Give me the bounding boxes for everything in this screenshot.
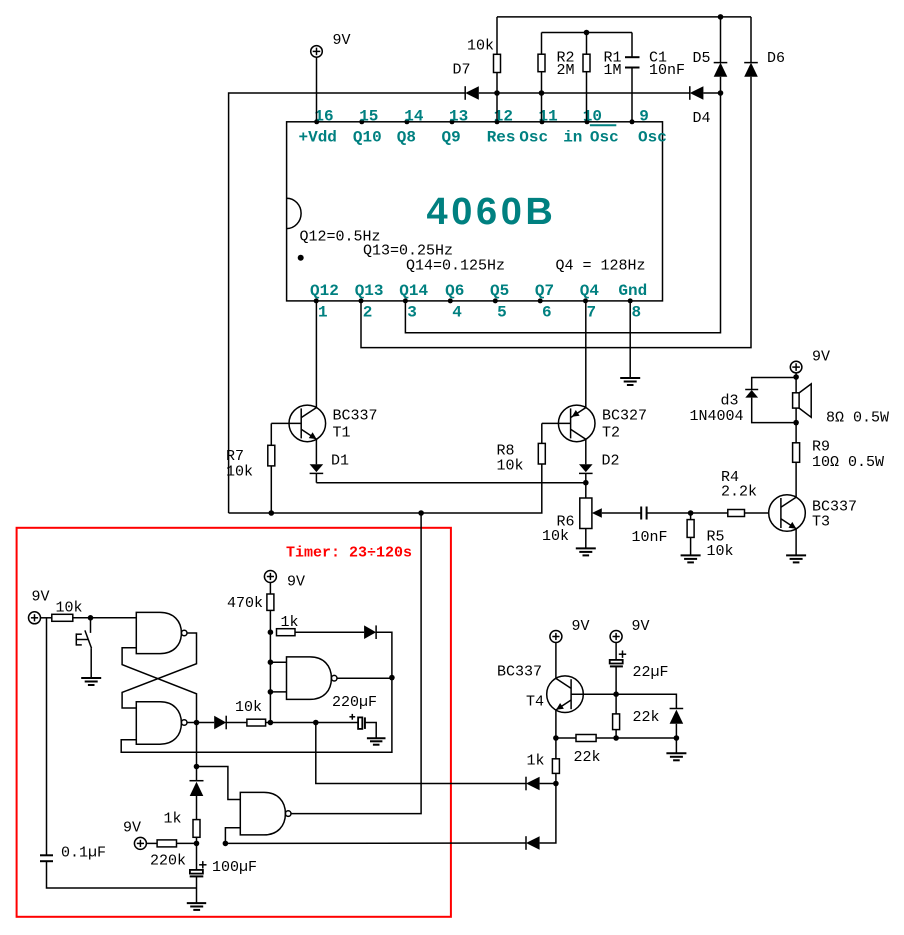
wire T3 emitter to ground xyxy=(795,529,797,556)
ground (220uF) xyxy=(367,738,386,745)
resistor R7 10k xyxy=(226,423,275,513)
svg-text:13: 13 xyxy=(449,108,468,126)
svg-text:9V: 9V xyxy=(123,820,141,837)
diode D7 xyxy=(453,62,498,100)
capacitor 0.1uF xyxy=(40,618,197,888)
svg-text:D1: D1 xyxy=(331,453,349,470)
svg-text:7: 7 xyxy=(587,304,597,322)
node junction speaker bottom / d3 xyxy=(793,420,799,426)
svg-text:1k: 1k xyxy=(281,614,299,631)
svg-text:10k: 10k xyxy=(707,543,734,560)
timer enclosure box xyxy=(17,528,451,917)
svg-text:Timer: 23÷120s: Timer: 23÷120s xyxy=(286,545,412,562)
resistor R1 1M xyxy=(583,33,622,122)
svg-text:1k: 1k xyxy=(164,811,182,828)
ground (R5) xyxy=(681,555,701,562)
wire D1 to D2 node xyxy=(316,482,585,484)
svg-text:1M: 1M xyxy=(604,62,622,79)
node junction R2 / reset wire xyxy=(539,90,545,96)
svg-text:8: 8 xyxy=(632,304,642,322)
wire T4 emitter down xyxy=(555,710,557,738)
svg-text:Q4 = 128Hz: Q4 = 128Hz xyxy=(556,258,646,275)
power 9V supply (220k) xyxy=(123,820,146,850)
node junction 10nF/R5/R4 xyxy=(688,510,694,516)
capacitor 100uF xyxy=(190,843,257,903)
wire 10k to pin 12 xyxy=(496,93,498,122)
node junction N4 input A tap xyxy=(194,764,200,770)
svg-text:T1: T1 xyxy=(333,425,351,442)
svg-text:Q12: Q12 xyxy=(310,282,339,300)
transistor T2 BC327 xyxy=(558,405,647,442)
svg-text:220µF: 220µF xyxy=(332,694,377,711)
diode (base clamp) xyxy=(670,709,684,739)
wire pin 1 to T1 collector xyxy=(315,301,317,408)
wire N4 output to y513 node xyxy=(291,513,421,814)
wire RC node to T4 stage xyxy=(225,842,526,844)
pin 1 xyxy=(310,282,339,322)
pin 8 xyxy=(618,282,647,322)
resistor R9 10ohm xyxy=(793,423,884,498)
nand gate N1 xyxy=(136,612,187,653)
svg-text:d3: d3 xyxy=(721,393,739,410)
nand gate N4 xyxy=(240,792,291,835)
svg-text:6: 6 xyxy=(542,304,552,322)
wire N3 output feedback to N2 input B xyxy=(121,678,392,753)
node junction N3 output / diode xyxy=(389,675,395,681)
svg-text:9V: 9V xyxy=(333,32,351,49)
svg-text:9V: 9V xyxy=(572,618,590,635)
svg-text:Q7: Q7 xyxy=(535,282,554,300)
node junction N4 input B / RC xyxy=(223,841,229,847)
wire N2 output down xyxy=(196,723,198,781)
svg-text:9: 9 xyxy=(639,108,649,126)
svg-text:1: 1 xyxy=(318,304,328,322)
wire T4 base xyxy=(571,693,616,695)
wire N4 input B xyxy=(225,828,240,844)
svg-text:2.2k: 2.2k xyxy=(721,484,757,501)
wire to N4 input A xyxy=(197,767,241,800)
svg-text:10: 10 xyxy=(583,108,602,126)
pin 3 xyxy=(399,282,428,322)
diode (timer sense lower) xyxy=(526,836,540,850)
svg-text:Q8: Q8 xyxy=(397,129,416,147)
svg-text:10nF: 10nF xyxy=(649,62,685,79)
pin 4 xyxy=(445,282,464,322)
resistor R5 10k xyxy=(687,513,733,560)
svg-text:BC327: BC327 xyxy=(602,408,647,425)
node junction R7 bottom xyxy=(269,510,275,516)
ground (100uF) xyxy=(187,903,206,910)
wire pin 7 to T2 xyxy=(585,301,587,408)
node junction N2 output xyxy=(194,720,200,726)
svg-text:10Ω 0.5W: 10Ω 0.5W xyxy=(812,454,884,471)
pin 13 xyxy=(442,108,469,147)
svg-text:1N4004: 1N4004 xyxy=(690,408,744,425)
wire N1 output to cross-coupling xyxy=(122,633,196,708)
svg-text:Osc: Osc xyxy=(638,129,667,147)
wire bottom long rail y=513 xyxy=(229,464,542,513)
svg-text:Osc: Osc xyxy=(519,129,548,147)
wire pin 8 to ground xyxy=(629,301,631,378)
power 9V supply (T4 collector) xyxy=(550,618,590,643)
wire reset line y=93 xyxy=(229,93,466,513)
capacitor 220uF xyxy=(332,694,377,738)
node junction pushbutton xyxy=(88,615,94,621)
pin 11 xyxy=(519,108,582,147)
resistor R4 2.2k xyxy=(691,469,769,517)
svg-text:+Vdd: +Vdd xyxy=(299,129,337,147)
svg-text:9V: 9V xyxy=(287,574,305,591)
svg-text:Q5: Q5 xyxy=(490,282,509,300)
transistor T3 BC337 xyxy=(769,495,857,532)
svg-text:T4: T4 xyxy=(526,694,544,711)
pushbutton switch xyxy=(76,618,91,678)
ground (pin 8) xyxy=(620,378,640,385)
diode (timer sense upper) xyxy=(526,777,556,791)
diode d3 1N4004 (flyback) xyxy=(690,378,797,426)
node junction N3 input B xyxy=(268,689,274,695)
resistor R8 10k xyxy=(497,423,546,474)
pin 10 xyxy=(583,108,619,147)
svg-text:10k: 10k xyxy=(56,600,83,617)
pin 5 xyxy=(490,282,509,322)
svg-text:Res: Res xyxy=(487,129,516,147)
pin 7 xyxy=(580,282,600,322)
node junction rail / R1 xyxy=(584,30,590,36)
svg-text:D6: D6 xyxy=(767,50,785,67)
svg-text:Gnd: Gnd xyxy=(618,282,647,300)
svg-text:BC337: BC337 xyxy=(333,408,378,425)
speaker 8ohm xyxy=(793,384,889,427)
svg-text:8Ω 0.5W: 8Ω 0.5W xyxy=(826,410,889,427)
svg-text:D5: D5 xyxy=(693,50,711,67)
node junction T4 base / 22uF / 22k xyxy=(613,691,619,697)
svg-text:1k: 1k xyxy=(527,753,545,770)
diode D6 xyxy=(744,17,785,77)
node junction 22k bottom xyxy=(613,735,619,741)
node junction D2 / D1 wire xyxy=(583,480,589,486)
wire 9V to pin 16 xyxy=(316,57,318,122)
diode (N2 out to 10k) xyxy=(214,716,247,730)
nand gate N3 xyxy=(287,657,338,700)
svg-text:BC337: BC337 xyxy=(497,664,542,681)
resistor 220k xyxy=(146,840,197,870)
power 9V supply (speaker) xyxy=(790,349,830,373)
wire N3 input A xyxy=(270,661,286,663)
power 9V supply (Vdd) xyxy=(311,32,351,57)
svg-text:D7: D7 xyxy=(453,62,471,79)
svg-text:4: 4 xyxy=(452,304,462,322)
svg-text:Q6: Q6 xyxy=(445,282,464,300)
diode (1k to N3 out) xyxy=(364,625,392,677)
wire 9V to speaker xyxy=(795,373,797,393)
svg-text:Q4: Q4 xyxy=(580,282,600,300)
diode D5 xyxy=(693,17,728,93)
node junction 9V / d3 top xyxy=(793,374,799,380)
capacitor C1 10nF xyxy=(625,33,685,122)
svg-text:Q13: Q13 xyxy=(355,282,384,300)
svg-text:D2: D2 xyxy=(602,453,620,470)
ground (pushbutton) xyxy=(81,678,101,685)
svg-text:Osc: Osc xyxy=(590,129,619,147)
resistor 1k (discharge) xyxy=(164,811,201,844)
svg-text:10k: 10k xyxy=(497,458,524,475)
pin 16 xyxy=(299,108,337,147)
svg-text:10k: 10k xyxy=(542,528,569,545)
svg-text:4060B: 4060B xyxy=(427,191,557,233)
node junction y513 / NAND4 output line xyxy=(418,510,424,516)
wire 1k node down xyxy=(540,784,556,844)
svg-text:5: 5 xyxy=(497,304,507,322)
svg-text:22µF: 22µF xyxy=(633,664,669,681)
node junction 1k / diodes xyxy=(553,781,559,787)
wire T2 base xyxy=(542,422,571,424)
svg-text:in: in xyxy=(563,129,582,147)
pin 9 xyxy=(630,108,667,147)
resistor 22k (emitter) xyxy=(556,735,677,767)
wire N3 input B xyxy=(270,691,286,693)
svg-text:220k: 220k xyxy=(150,853,186,870)
svg-text:10k: 10k xyxy=(226,464,253,481)
wire to ground (T4 net) xyxy=(675,738,677,753)
node junction 1k/220k/100uF xyxy=(194,841,200,847)
svg-text:10k: 10k xyxy=(467,38,494,55)
wire N3 output xyxy=(337,677,392,679)
svg-text:22k: 22k xyxy=(633,709,660,726)
node junction top rail / D5 xyxy=(718,14,724,20)
resistor 10k (latch pullup) xyxy=(40,600,136,622)
svg-text:9V: 9V xyxy=(632,618,650,635)
resistor 1k (T4 emitter) xyxy=(527,738,560,784)
wire top rail xyxy=(497,16,751,18)
diode (discharge, at N2 chain) xyxy=(190,781,204,820)
node junction 10k/D7/pin12 xyxy=(494,90,500,96)
nand gate N2 xyxy=(136,702,187,744)
power 9V supply (470k) xyxy=(264,571,305,591)
svg-text:16: 16 xyxy=(314,108,333,126)
ground (R6) xyxy=(576,548,596,555)
svg-text:9V: 9V xyxy=(32,589,50,606)
svg-text:14: 14 xyxy=(404,108,424,126)
svg-text:R7: R7 xyxy=(226,448,244,465)
power 9V supply (latch) xyxy=(29,589,50,624)
node junction 10k / 470k line xyxy=(268,720,274,726)
pin 2 xyxy=(355,282,384,322)
wire N2 output to cross-coupling xyxy=(122,648,196,723)
pin 12 xyxy=(487,108,516,147)
capacitor 10nF (coupling) xyxy=(632,507,691,547)
wire pin 3 to D5 xyxy=(405,93,720,333)
resistor 470k xyxy=(227,582,274,632)
svg-text:Q9: Q9 xyxy=(442,129,461,147)
resistor R2 2M xyxy=(538,33,575,122)
wire T2 collector to D2 xyxy=(585,439,587,464)
IC U1 body xyxy=(287,122,663,301)
pin 6 xyxy=(535,282,554,322)
node junction 470k / 1k xyxy=(268,629,274,635)
ground (T3) xyxy=(786,555,806,562)
svg-text:100µF: 100µF xyxy=(212,859,257,876)
wire N2 output stub xyxy=(187,722,214,724)
svg-text:D4: D4 xyxy=(693,110,711,127)
ground (T4 net) xyxy=(666,753,686,760)
svg-text:10nF: 10nF xyxy=(632,529,668,546)
trimmer R6 10k xyxy=(542,483,641,549)
svg-text:Q14=0.125Hz: Q14=0.125Hz xyxy=(406,258,505,275)
wire 9V to T4 collector xyxy=(555,642,557,678)
svg-text:2M: 2M xyxy=(557,62,575,79)
node junction T4 emitter xyxy=(553,735,559,741)
node junction N3 input A xyxy=(268,659,274,665)
wire timing node to T4 stage xyxy=(316,723,526,784)
power 9V supply (22uF) xyxy=(610,618,649,643)
svg-text:R9: R9 xyxy=(812,439,830,456)
resistor 10k (reset pull) xyxy=(467,17,501,93)
wire T1 base xyxy=(271,422,301,424)
diode D1 xyxy=(310,453,349,483)
resistor 22k (base-emitter net) xyxy=(613,694,660,738)
resistor 10k (timing) xyxy=(235,699,270,726)
svg-text:Q14: Q14 xyxy=(399,282,428,300)
wire pin 2 to D6 xyxy=(361,77,751,348)
svg-text:T2: T2 xyxy=(602,425,620,442)
svg-text:22k: 22k xyxy=(574,749,601,766)
svg-text:2: 2 xyxy=(363,304,373,322)
svg-text:3: 3 xyxy=(407,304,417,322)
capacitor 22uF xyxy=(610,642,669,694)
node junction D4 / D5 anode xyxy=(718,90,724,96)
resistor 1k (to diode) xyxy=(277,614,365,636)
transistor T4 BC337 (mirrored) xyxy=(497,664,583,713)
node junction clamp / 22k / ground xyxy=(674,735,680,741)
svg-text:10k: 10k xyxy=(235,699,262,716)
wire timing node right xyxy=(270,722,358,724)
IC internal frequency labels xyxy=(300,229,646,275)
svg-text:0.1µF: 0.1µF xyxy=(61,845,106,862)
node junction timing node / 220uF xyxy=(313,720,319,726)
diode D4 xyxy=(690,86,721,127)
svg-text:Q10: Q10 xyxy=(353,129,382,147)
pin 14 xyxy=(397,108,424,147)
diode D2 xyxy=(579,453,620,483)
svg-text:470k: 470k xyxy=(227,595,263,612)
pin 15 xyxy=(353,108,382,147)
wire reset line to D4 xyxy=(497,92,690,94)
wire 470k node down xyxy=(269,632,271,722)
svg-text:15: 15 xyxy=(359,108,378,126)
transistor T1 BC337 xyxy=(289,405,378,442)
wire T1 emitter to D1 xyxy=(315,439,317,464)
wire second rail R2/R1/C1 tops xyxy=(542,32,633,34)
wire base clamp right xyxy=(616,694,676,708)
svg-text:9V: 9V xyxy=(812,349,830,366)
svg-text:T3: T3 xyxy=(812,514,830,531)
